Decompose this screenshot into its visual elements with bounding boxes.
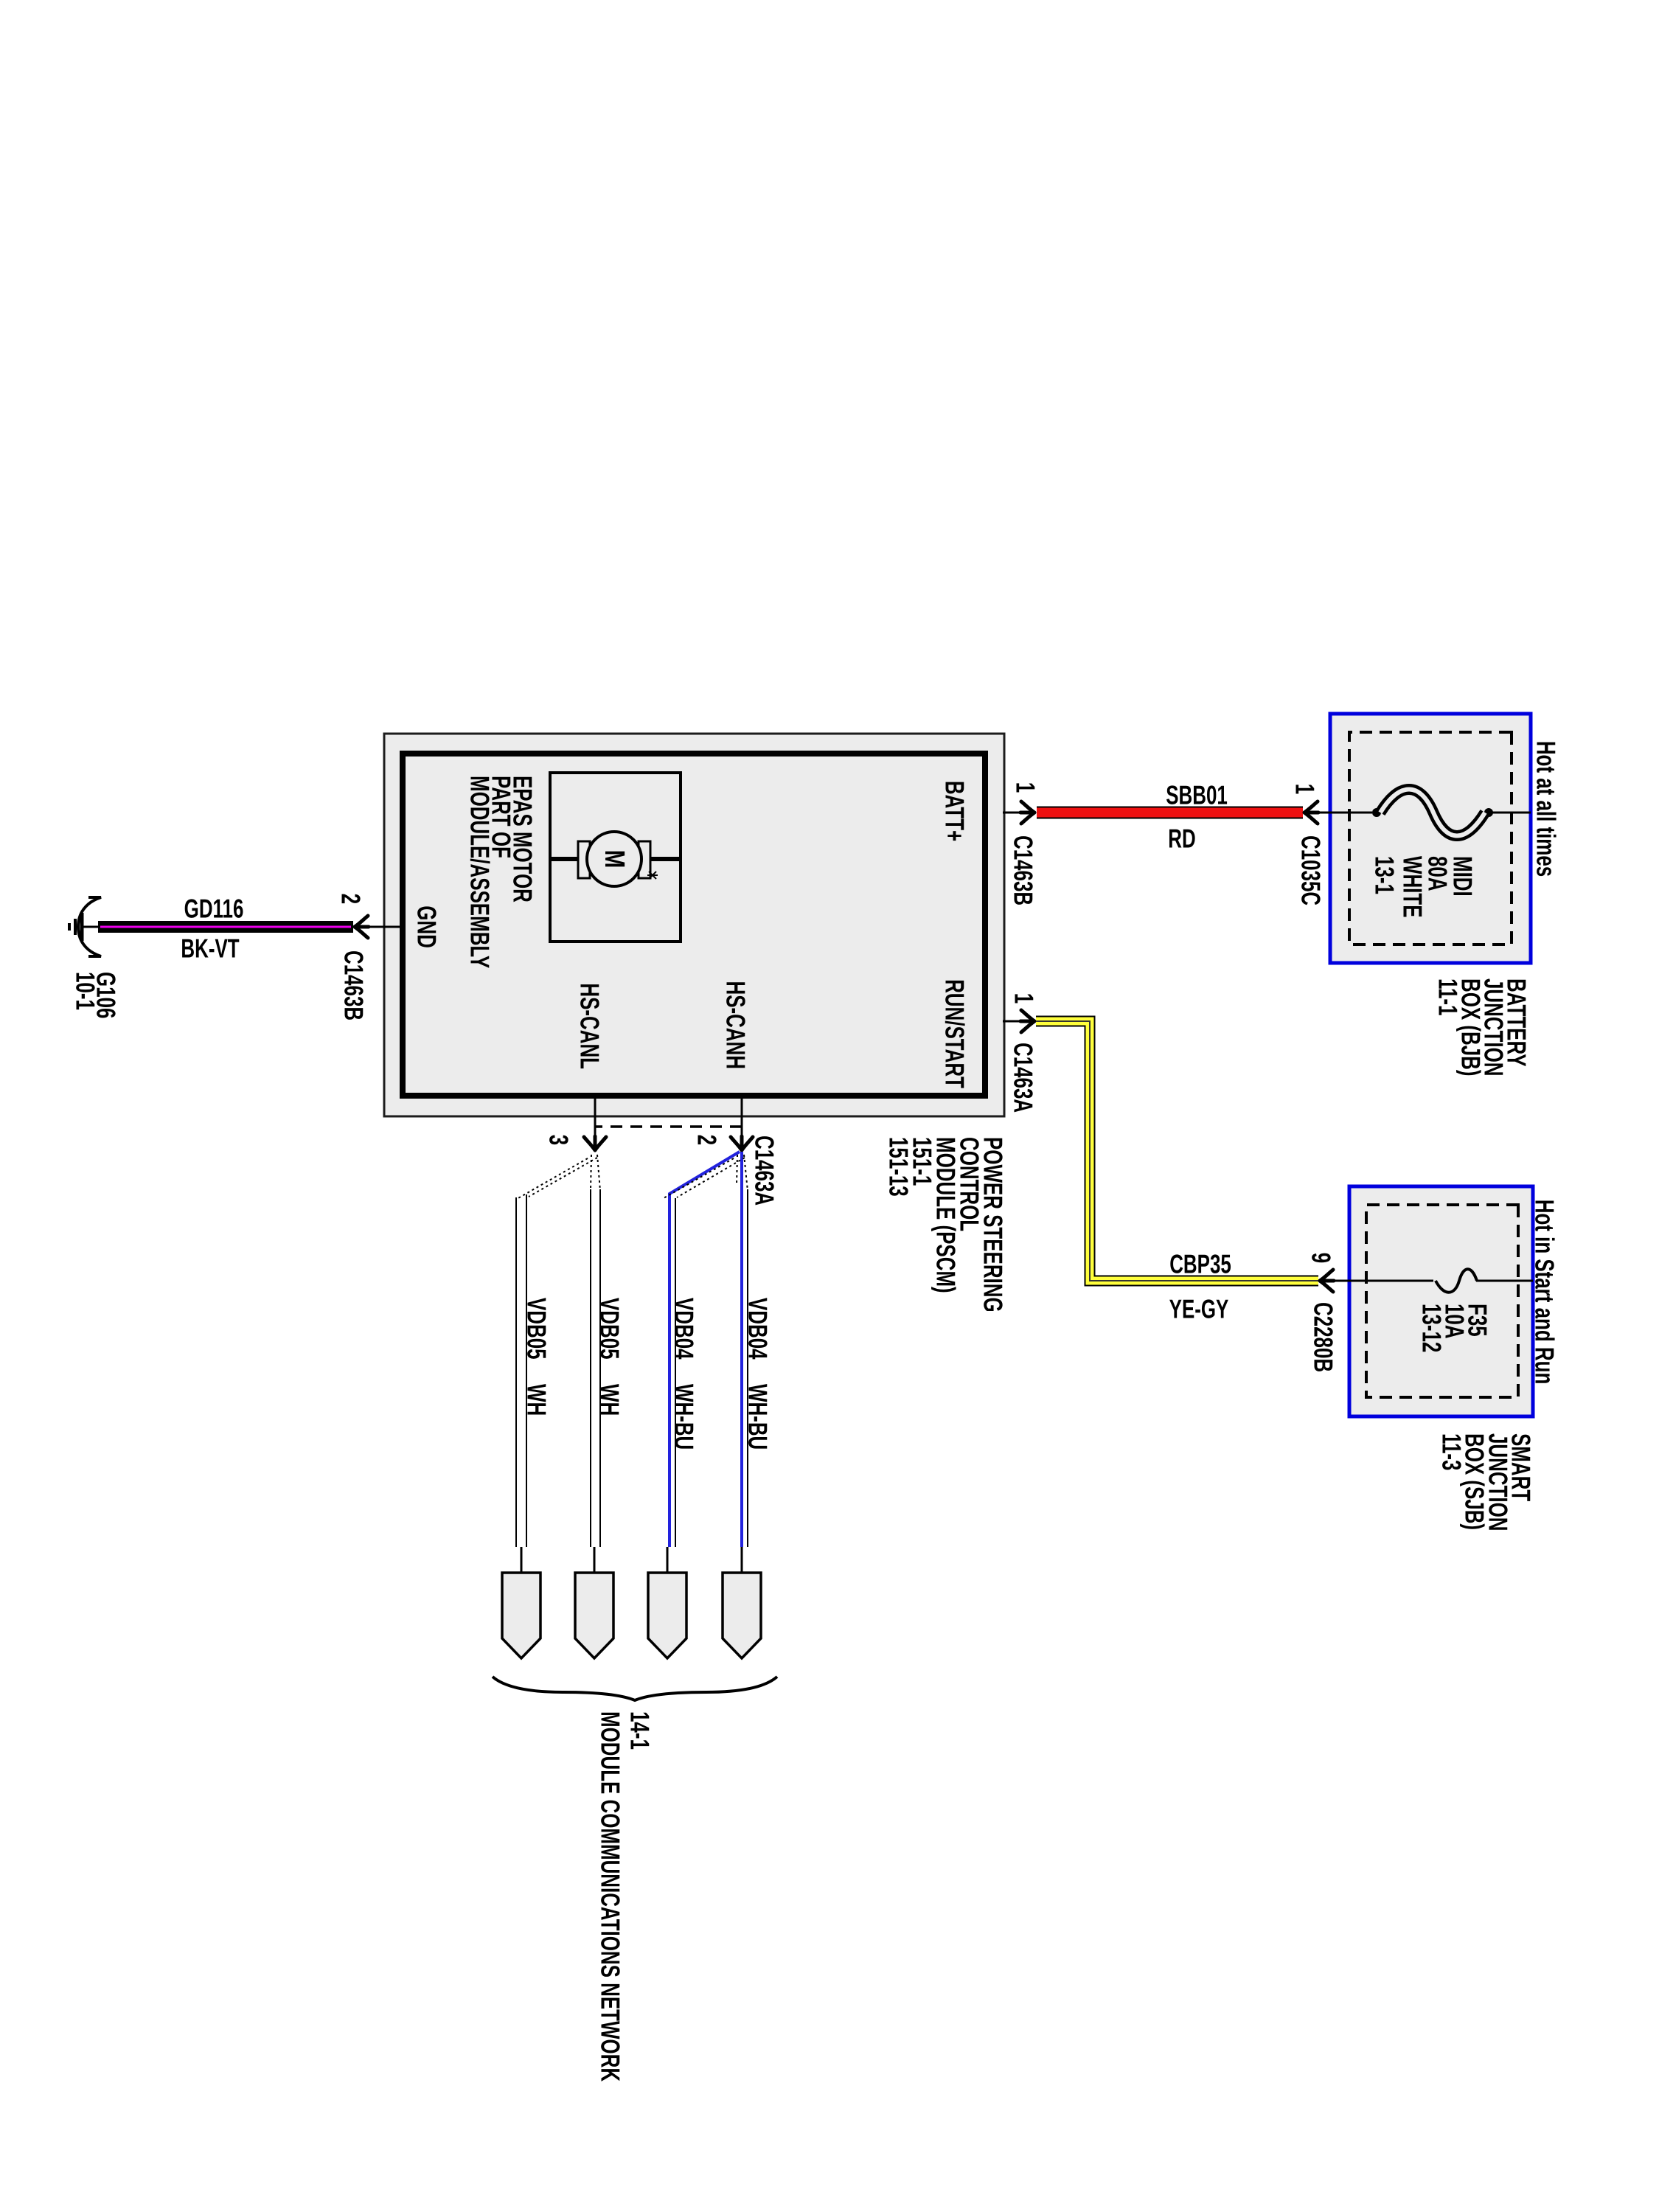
- EPAS motor sub-assembly box: [550, 773, 681, 942]
- wire GD116 BK-VT (ground wire): [98, 921, 353, 933]
- svg-text:MODULE/ASSEMBLY: MODULE/ASSEMBLY: [465, 776, 495, 968]
- svg-text:SBB01: SBB01: [1166, 780, 1228, 810]
- label pin 3 (CANL): [544, 1135, 574, 1145]
- label HS-CANH: [721, 981, 751, 1069]
- label GD116 BK-VT: [184, 894, 244, 924]
- BJB fuse dashed box: [1349, 732, 1512, 945]
- network terminal pin 1: [502, 1573, 540, 1658]
- motor polarity mark: [647, 872, 658, 879]
- wire stub fuse to BJB top: [1492, 812, 1531, 814]
- svg-text:Hot in Start and Run: Hot in Start and Run: [1530, 1200, 1560, 1385]
- label SMART JUNCTION BOX (SJB) 11-3: [1506, 1433, 1537, 1501]
- BJB MIDI fuse upper terminal: [1484, 808, 1493, 817]
- svg-text:RD: RD: [1168, 824, 1195, 854]
- network terminal pin 3: [648, 1573, 686, 1658]
- svg-text:10-1: 10-1: [71, 972, 101, 1010]
- svg-text:13-1: 13-1: [1370, 856, 1400, 894]
- svg-text:WH: WH: [522, 1384, 552, 1416]
- wire VDB05 WH upper pair: [599, 1189, 601, 1547]
- svg-text:151-13: 151-13: [884, 1137, 914, 1197]
- svg-text:C1463B: C1463B: [1009, 835, 1039, 905]
- wire stub into SJB: [1333, 1280, 1433, 1282]
- motor label M: [599, 850, 630, 869]
- svg-text:CBP35: CBP35: [1169, 1249, 1231, 1279]
- svg-text:RUN/START: RUN/START: [940, 979, 970, 1088]
- motor brush top: [639, 841, 650, 878]
- svg-text:C1035C: C1035C: [1296, 835, 1326, 905]
- label POWER STEERING CONTROL MODULE (PSCM) 151-1 151-13: [978, 1137, 1009, 1312]
- svg-text:9: 9: [1307, 1253, 1337, 1263]
- motor brush bottom: [578, 841, 590, 878]
- BJB MIDI fuse lower terminal: [1372, 808, 1381, 817]
- battery junction box BJB: [1330, 714, 1531, 963]
- module PSCM outer box: [384, 734, 1004, 1116]
- label pin 2 C1463B (GND): [336, 894, 366, 904]
- svg-text:2: 2: [692, 1135, 723, 1145]
- svg-text:GD116: GD116: [184, 894, 244, 924]
- label HS-CANL: [575, 983, 605, 1069]
- svg-text:C2280B: C2280B: [1309, 1302, 1339, 1372]
- svg-text:MODULE COMMUNICATIONS NETWORK: MODULE COMMUNICATIONS NETWORK: [596, 1711, 626, 2081]
- svg-text:WHITE: WHITE: [1398, 856, 1428, 918]
- label BATT+: [940, 781, 970, 841]
- connector arrow C1463A pin 1 (points up): [1020, 1010, 1034, 1032]
- svg-text:WH: WH: [595, 1384, 625, 1416]
- svg-text:11-1: 11-1: [1433, 978, 1464, 1015]
- wire stub fuse to SJB top: [1476, 1280, 1533, 1282]
- label VDB04 WH-BU (upper): [743, 1298, 773, 1360]
- wire VDB05 WH lower pair: [529, 1158, 597, 1197]
- svg-text:11-3: 11-3: [1437, 1433, 1467, 1470]
- svg-text:BATT+: BATT+: [940, 781, 970, 841]
- BJB MIDI fuse element: [1380, 790, 1485, 836]
- svg-text:C1463A: C1463A: [1009, 1043, 1039, 1113]
- connector arrow C1463B pin 1 (points up): [1020, 801, 1034, 824]
- wire stub to network pin 2: [594, 1547, 596, 1573]
- wire stub to network pin 1: [521, 1547, 523, 1573]
- label MIDI 80A WHITE 13-1: [1448, 856, 1478, 897]
- network terminal pin 2: [575, 1573, 613, 1658]
- svg-text:BK-VT: BK-VT: [181, 933, 239, 964]
- svg-text:13-12: 13-12: [1417, 1304, 1447, 1352]
- motor lead bottom wire: [550, 857, 582, 861]
- label pin 1 C1035C: [1290, 784, 1321, 794]
- connector arrow C2280B pin 9 (points down): [1320, 1270, 1334, 1292]
- connector arrow C1463A pin 3 (points right): [584, 1136, 606, 1150]
- svg-text:3: 3: [544, 1135, 574, 1145]
- SJB fuse dashed box: [1366, 1205, 1518, 1397]
- label CBP35 YE-GY: [1169, 1249, 1231, 1279]
- svg-text:WH-BU: WH-BU: [669, 1384, 700, 1450]
- SJB fuse F35 element: [1436, 1269, 1477, 1293]
- svg-text:VDB05: VDB05: [595, 1298, 625, 1360]
- svg-text:C1463A: C1463A: [750, 1135, 780, 1206]
- svg-text:HS-CANL: HS-CANL: [575, 983, 605, 1069]
- svg-text:VDB04: VDB04: [669, 1298, 700, 1360]
- label Hot in Start and Run: [1530, 1200, 1560, 1385]
- label RUN/START: [940, 979, 970, 1088]
- label BATTERY JUNCTION BOX (BJB) 11-1: [1502, 978, 1532, 1067]
- svg-text:1: 1: [1290, 784, 1321, 794]
- smart junction box SJB: [1349, 1186, 1533, 1416]
- module PSCM inner box: [403, 754, 985, 1096]
- label Hot at all times: [1531, 741, 1562, 877]
- wire VDB04 WH-BU upper pair: [740, 1152, 743, 1547]
- wire CBP35 YE-GY (yellow run/start feed): [1036, 1021, 1318, 1281]
- wire SBB01 RD (red power feed): [1037, 807, 1303, 819]
- wire stub to network pin 3: [667, 1547, 669, 1573]
- wire BATT+ pin stub: [1003, 812, 1023, 814]
- svg-text:M: M: [599, 850, 630, 869]
- wire RUN/START pin stub: [1003, 1020, 1023, 1023]
- svg-text:HS-CANH: HS-CANH: [721, 981, 751, 1069]
- connector arrow C1463A pin 2 (points right): [731, 1136, 753, 1150]
- brace module communications network: [493, 1677, 777, 1700]
- label pin 1 C1463B (BATT+): [1011, 782, 1041, 793]
- label pin 2 (CANH): [692, 1135, 723, 1145]
- connector arrow C1463B pin 2 (points down): [355, 916, 369, 938]
- label VDB05 WH (upper): [595, 1298, 625, 1360]
- wire HS-CANL pin stub: [594, 1096, 597, 1141]
- wire GND pin stub: [367, 926, 403, 928]
- label pin 9 C2280B: [1307, 1253, 1337, 1263]
- ground G106 symbol: [82, 926, 98, 928]
- svg-text:VDB04: VDB04: [743, 1298, 773, 1360]
- label G106 10-1: [91, 972, 122, 1018]
- label 14-1 MODULE COMMUNICATIONS NETWORK: [625, 1711, 655, 1750]
- label VDB04 WH-BU (lower): [669, 1298, 700, 1360]
- network terminal pin 4: [723, 1573, 761, 1658]
- svg-text:1: 1: [1011, 782, 1041, 793]
- label GND: [412, 905, 442, 948]
- svg-text:WH-BU: WH-BU: [743, 1384, 773, 1450]
- svg-text:14-1: 14-1: [625, 1711, 655, 1750]
- label pin 1 C1463A (RUN/START): [1009, 993, 1040, 1004]
- label VDB05 WH (lower): [522, 1298, 552, 1360]
- label SBB01 RD: [1166, 780, 1228, 810]
- connector arrow C1035C pin 1 (points down): [1304, 801, 1318, 824]
- svg-text:1: 1: [1009, 993, 1040, 1004]
- wire VDB04 WH-BU lower pair: [669, 1152, 740, 1547]
- svg-text:C1463B: C1463B: [339, 950, 369, 1020]
- motor M1 circle: [587, 832, 641, 886]
- svg-text:2: 2: [336, 894, 366, 904]
- label EPAS MOTOR PART OF MODULE/ASSEMBLY: [508, 776, 538, 902]
- wire HS-CANH pin stub: [741, 1096, 743, 1141]
- connector C1463A dashed boundary: [594, 1125, 742, 1128]
- svg-text:GND: GND: [412, 905, 442, 948]
- svg-text:YE-GY: YE-GY: [1169, 1294, 1229, 1324]
- label F35 10A 13-12: [1463, 1304, 1493, 1337]
- label C1463A (CAN connector): [750, 1135, 780, 1206]
- svg-text:VDB05: VDB05: [522, 1298, 552, 1360]
- svg-text:Hot at all times: Hot at all times: [1531, 741, 1562, 877]
- wire stub to network pin 4: [741, 1547, 743, 1573]
- motor lead top wire: [646, 857, 681, 861]
- wire stub into BJB: [1318, 812, 1372, 814]
